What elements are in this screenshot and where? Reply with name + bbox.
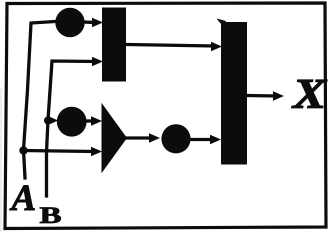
svg-text:B: B [40, 203, 62, 228]
svg-text:A: A [10, 178, 37, 219]
svg-text:X: X [291, 72, 328, 118]
